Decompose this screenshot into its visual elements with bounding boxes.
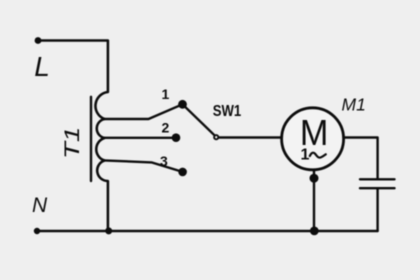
- svg-text:M1: M1: [342, 95, 366, 115]
- svg-text:1: 1: [301, 147, 310, 164]
- svg-text:L: L: [34, 51, 50, 82]
- svg-text:SW1: SW1: [213, 103, 242, 120]
- svg-text:2: 2: [162, 120, 170, 136]
- svg-text:N: N: [32, 194, 48, 217]
- svg-text:3: 3: [160, 153, 168, 169]
- svg-text:1: 1: [162, 86, 170, 102]
- svg-text:T1: T1: [61, 127, 84, 159]
